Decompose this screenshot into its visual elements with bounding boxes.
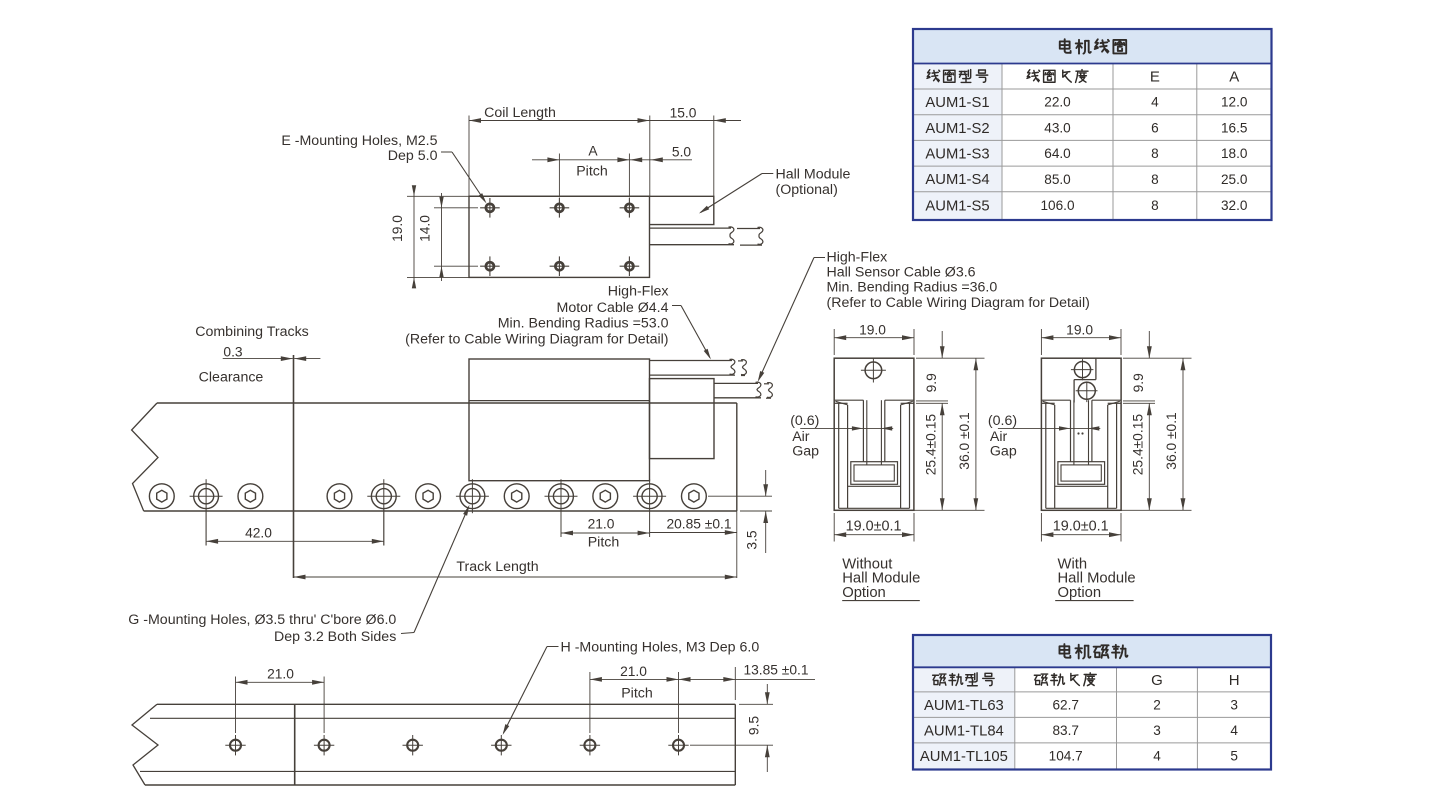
dimension: 25.4 +/-0.15 [1148, 403, 1150, 510]
dimension: 14.0 hole row spacing [434, 207, 478, 209]
svg-text:AUM1-S3: AUM1-S3 [925, 146, 989, 162]
svg-text:25.4±0.15: 25.4±0.15 [1131, 414, 1146, 476]
section: top mounting hole [865, 362, 882, 379]
svg-text:19.0±0.1: 19.0±0.1 [846, 518, 902, 534]
rail bottom view: inner top line [150, 717, 735, 719]
svg-text:9.5: 9.5 [747, 716, 762, 736]
svg-text:42.0: 42.0 [245, 525, 272, 540]
dimension: 19.0 +/-0.1 bottom [1040, 513, 1042, 542]
svg-text:4: 4 [1151, 95, 1159, 110]
svg-text:Pitch: Pitch [576, 163, 608, 179]
svg-text:Min. Bending Radius =36.0: Min. Bending Radius =36.0 [827, 279, 998, 295]
svg-text:12.0: 12.0 [1221, 95, 1248, 110]
section: coil blade [862, 400, 864, 462]
svg-text:21.0: 21.0 [588, 517, 615, 532]
track side view: combining joint line [293, 355, 295, 578]
svg-text:AUM1-S5: AUM1-S5 [925, 199, 989, 215]
svg-text:AUM1-S1: AUM1-S1 [925, 95, 989, 111]
svg-text:(Optional): (Optional) [776, 182, 838, 198]
table: title text [1060, 39, 1071, 53]
table: first column tint [913, 64, 1002, 221]
svg-text:E -Mounting Holes, M2.5: E -Mounting Holes, M2.5 [281, 133, 437, 149]
svg-text:104.7: 104.7 [1049, 748, 1083, 763]
svg-text:106.0: 106.0 [1040, 198, 1074, 213]
table: outer border and title separator [913, 666, 1271, 668]
svg-text:Pitch: Pitch [588, 534, 620, 550]
section: coil plate bottom edges [834, 399, 863, 401]
dimension: air gap (0.6) [800, 427, 893, 429]
hall sensor cable side view [714, 382, 758, 384]
section: hall notch step [1095, 358, 1097, 379]
svg-text:9.9: 9.9 [924, 373, 939, 393]
coil side view: plate bottom line [469, 400, 650, 402]
dimension: 21.0 (left) [235, 677, 237, 734]
svg-text:G: G [1151, 672, 1163, 689]
svg-text:22.0: 22.0 [1044, 95, 1071, 110]
svg-text:G -Mounting Holes, Ø3.5 thru': G -Mounting Holes, Ø3.5 thru' C'bore Ø6.… [128, 612, 396, 628]
table: column headers [927, 70, 940, 82]
section: bottom slab line [1046, 507, 1117, 509]
svg-text:5.0: 5.0 [672, 145, 692, 160]
section: bottom slab line [839, 507, 910, 509]
svg-text:AUM1-TL105: AUM1-TL105 [920, 749, 1008, 765]
section: blade foot (end turns) [851, 462, 898, 485]
section: hall sensor hole [1078, 382, 1095, 399]
svg-text:Track Length: Track Length [456, 559, 538, 575]
with hall module cross-section: outline [1041, 358, 1121, 510]
svg-text:0.3: 0.3 [223, 344, 243, 359]
dimension: 3.5 (hole line to bottom) [708, 495, 772, 497]
svg-text:Motor Cable Ø4.4: Motor Cable Ø4.4 [557, 300, 669, 316]
track side view: top edge [157, 402, 737, 404]
svg-text:H -Mounting Holes, M3 Dep 6.0: H -Mounting Holes, M3 Dep 6.0 [561, 640, 760, 656]
track side view: G holes with crosshairs [194, 484, 219, 509]
section: magnets on inner walls [847, 405, 849, 508]
svg-text:A: A [1229, 69, 1239, 86]
svg-text:AUM1-S2: AUM1-S2 [925, 121, 989, 137]
svg-text:High-Flex: High-Flex [827, 250, 888, 266]
section: channel floor [1055, 485, 1108, 487]
svg-text:8: 8 [1151, 198, 1159, 213]
svg-text:16.5: 16.5 [1221, 120, 1247, 135]
section: track wall tops and chamfers [1041, 402, 1054, 404]
svg-text:21.0: 21.0 [267, 667, 294, 682]
svg-text:AUM1-TL84: AUM1-TL84 [924, 723, 1004, 739]
svg-text:6: 6 [1151, 120, 1159, 135]
rail bottom view: top edge [157, 703, 735, 705]
table: title text [1059, 644, 1070, 658]
rail bottom view: bottom edge [145, 784, 735, 786]
track side view: bottom edge [144, 510, 737, 512]
dimension: 36.0 +/-0.1 [914, 509, 985, 511]
coil top view: six E mounting holes M2.5 [486, 204, 494, 212]
svg-text:Combining Tracks: Combining Tracks [195, 324, 309, 340]
rail bottom view: inner bottom line [140, 770, 735, 772]
svg-text:Min. Bending Radius =53.0: Min. Bending Radius =53.0 [498, 315, 669, 331]
svg-text:Pitch: Pitch [621, 685, 653, 701]
dimension: Coil Length [468, 116, 470, 197]
svg-text:Hall Module: Hall Module [776, 166, 851, 182]
dimension: 42.0 hole pitch [205, 508, 207, 546]
dimension: 19.0 section width [833, 329, 835, 355]
table: outer border and title separator [913, 63, 1272, 65]
section: wall inner lines [1045, 403, 1047, 508]
svg-text:4: 4 [1230, 723, 1238, 738]
section: wall inner lines [838, 403, 840, 508]
table: first column tint [913, 667, 1015, 769]
coil top view: motor cable [650, 227, 732, 229]
section: magnets on inner walls [1054, 405, 1056, 508]
svg-text:21.0: 21.0 [620, 664, 647, 679]
dimension: 19.0 section width [1040, 329, 1042, 355]
table: title band fill [913, 29, 1272, 64]
svg-text:14.0: 14.0 [418, 215, 433, 242]
svg-text:83.7: 83.7 [1052, 723, 1078, 738]
dimension: 36.0 +/-0.1 [1121, 509, 1192, 511]
svg-text:Dep 5.0: Dep 5.0 [388, 148, 438, 164]
svg-text:19.0: 19.0 [1066, 323, 1093, 338]
svg-text:3.5: 3.5 [745, 530, 760, 550]
svg-text:3: 3 [1153, 723, 1161, 738]
dimension: 9.9 [916, 357, 985, 359]
svg-text:25.4±0.15: 25.4±0.15 [924, 414, 939, 476]
section: air gap dots [1077, 432, 1079, 434]
hall module side view box [650, 379, 715, 459]
svg-text:(Refer to Cable Wiring Diagram: (Refer to Cable Wiring Diagram for Detai… [827, 295, 1090, 311]
dimension: 15.0 hall module length [713, 116, 715, 197]
svg-text:15.0: 15.0 [670, 106, 697, 121]
svg-text:(Refer to Cable Wiring Diagram: (Refer to Cable Wiring Diagram for Detai… [405, 331, 668, 347]
svg-text:85.0: 85.0 [1044, 172, 1071, 187]
rail bottom view: right edge [734, 704, 736, 785]
svg-text:64.0: 64.0 [1044, 146, 1071, 161]
dimension: 25.4 +/-0.15 [941, 403, 943, 510]
svg-text:H: H [1229, 672, 1240, 689]
svg-text:36.0 ±0.1: 36.0 ±0.1 [957, 412, 972, 469]
svg-text:Air: Air [792, 429, 810, 445]
svg-text:(0.6): (0.6) [790, 413, 819, 429]
track side view: right end edge [736, 403, 738, 511]
dimension: 13.85 +/-0.1 [734, 667, 736, 700]
without hall module cross-section: outline [834, 358, 914, 510]
motor cable side view [650, 360, 733, 362]
svg-text:43.0: 43.0 [1044, 120, 1071, 135]
rail bottom view: H mounting holes M3 [230, 740, 241, 751]
section: blade foot (end turns) [1058, 462, 1105, 485]
coil side view: body block [469, 359, 650, 481]
svg-text:High-Flex: High-Flex [608, 284, 669, 300]
dimension: Track Length [736, 511, 738, 578]
svg-text:2: 2 [1153, 697, 1161, 712]
svg-text:19.0±0.1: 19.0±0.1 [1053, 518, 1109, 534]
track side view: left break zigzag [132, 403, 158, 511]
table: title band fill [913, 635, 1271, 667]
svg-text:AUM1-S4: AUM1-S4 [925, 172, 989, 188]
dimension: 21.0 Pitch (right) [589, 672, 591, 733]
svg-text:Dep 3.2 Both Sides: Dep 3.2 Both Sides [274, 629, 396, 645]
svg-text:13.85 ±0.1: 13.85 ±0.1 [743, 662, 808, 677]
svg-text:20.85 ±0.1: 20.85 ±0.1 [666, 517, 731, 532]
dimension: 20.85 +/-0.1 [650, 532, 737, 534]
svg-text:Coil Length: Coil Length [484, 105, 556, 121]
dimension: 9.9 [1123, 357, 1192, 359]
section: coil plate bottom edges [1041, 399, 1070, 401]
svg-text:Option: Option [1058, 585, 1102, 601]
svg-text:25.0: 25.0 [1221, 172, 1248, 187]
track side view: mounting holes row [149, 484, 174, 509]
svg-text:18.0: 18.0 [1221, 146, 1248, 161]
table: grid lines [1001, 64, 1003, 221]
svg-text:8: 8 [1151, 146, 1159, 161]
dimension: A Pitch [558, 154, 560, 198]
dimension: 21.0 Pitch (track) [561, 532, 650, 534]
svg-text:9.9: 9.9 [1131, 373, 1146, 393]
rail bottom view: joint line [294, 704, 296, 785]
section: coil blade [1070, 400, 1072, 462]
svg-text:Option: Option [842, 585, 886, 601]
svg-text:3: 3 [1230, 697, 1238, 712]
dimension: air gap (0.6) [998, 427, 1100, 429]
svg-text:Air: Air [990, 429, 1008, 445]
svg-text:(0.6): (0.6) [988, 413, 1017, 429]
section: track wall tops and chamfers [834, 402, 847, 404]
svg-text:4: 4 [1153, 748, 1161, 763]
svg-text:5: 5 [1230, 748, 1238, 763]
section: top mounting hole [1074, 362, 1090, 378]
svg-text:62.7: 62.7 [1052, 697, 1078, 712]
dimension: 0.3 clearance arrows at joint [223, 358, 293, 360]
svg-text:19.0: 19.0 [390, 215, 405, 242]
svg-text:32.0: 32.0 [1221, 198, 1248, 213]
svg-text:19.0: 19.0 [859, 323, 886, 338]
table: grid lines [1014, 667, 1016, 769]
svg-text:Clearance: Clearance [199, 369, 264, 385]
dimension: 19.0 coil width [407, 195, 469, 197]
dimension: 19.0 +/-0.1 bottom [833, 513, 835, 542]
svg-text:E: E [1150, 69, 1160, 86]
dimension: 9.5 [739, 703, 773, 705]
svg-text:8: 8 [1151, 172, 1159, 187]
svg-text:Hall Sensor Cable Ø3.6: Hall Sensor Cable Ø3.6 [827, 264, 976, 280]
svg-text:A: A [588, 144, 598, 159]
svg-text:36.0 ±0.1: 36.0 ±0.1 [1164, 412, 1179, 469]
svg-text:Gap: Gap [990, 444, 1017, 460]
section: channel floor [848, 485, 901, 487]
table: column headers [933, 674, 946, 685]
svg-text:AUM1-TL63: AUM1-TL63 [924, 698, 1004, 714]
rail bottom view: left break zigzag [132, 704, 158, 785]
coil top view: body outline [469, 196, 650, 277]
coil top view: hall module extension box [469, 196, 714, 224]
svg-text:Gap: Gap [792, 444, 819, 460]
